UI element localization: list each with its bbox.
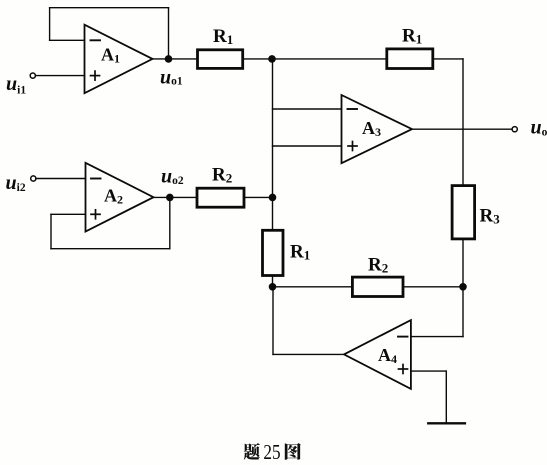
op-amp A3 bbox=[342, 95, 413, 163]
ground bbox=[428, 422, 465, 424]
terminal ui2 bbox=[31, 176, 36, 181]
wire down to ground bbox=[445, 371, 447, 423]
wire A1 feedback left bbox=[49, 8, 51, 41]
resistor R2 (left, after A2) bbox=[197, 188, 244, 207]
wire ui1 to A1 + input bbox=[35, 75, 84, 77]
A2 minus pin mark bbox=[91, 178, 101, 180]
A3 plus pin mark bbox=[348, 142, 357, 151]
A4 minus pin mark bbox=[398, 336, 408, 338]
resistor R1 (vertical middle) bbox=[263, 230, 284, 275]
wire R2 to middle junction bbox=[244, 196, 273, 198]
wire A2 feedback bottom bbox=[51, 248, 170, 250]
node uo1 junction dot bbox=[165, 55, 173, 63]
op-amp A1 bbox=[85, 25, 153, 94]
wire A1 inverting input bbox=[50, 39, 85, 41]
wire A3 output to uo bbox=[412, 128, 512, 130]
wire A1 feedback top bbox=[50, 7, 169, 9]
wire A3 non-inverting input bbox=[273, 145, 342, 147]
wire middle column bbox=[272, 59, 274, 230]
wire A2 feedback left up bbox=[50, 214, 52, 248]
wire R2 to right junction bbox=[403, 286, 463, 288]
resistor R2 (bottom horizontal) bbox=[352, 277, 403, 296]
A4 plus pin mark bbox=[399, 365, 408, 374]
node junction top dot bbox=[268, 55, 276, 63]
resistor R1 (top left) bbox=[198, 50, 243, 69]
node uo2 junction dot bbox=[166, 194, 174, 202]
wire right rail upper bbox=[462, 59, 464, 186]
node bottom-left junction dot bbox=[269, 283, 277, 291]
wire node to R2 bbox=[273, 286, 353, 288]
op-amp A4 (points left) bbox=[344, 320, 411, 389]
wire A4 non-inverting input bbox=[411, 370, 446, 372]
op-amp A2 bbox=[86, 163, 154, 232]
wire R1 to right rail corner bbox=[433, 58, 463, 60]
A2 plus pin mark bbox=[91, 210, 100, 219]
wire A4 output up to node bbox=[272, 287, 274, 355]
wire A2 feedback down bbox=[169, 197, 171, 248]
wire A4 inverting input bbox=[411, 336, 463, 338]
wire A4 output left bbox=[273, 353, 344, 355]
wire R1 bottom to node bbox=[272, 276, 274, 287]
terminal uo bbox=[512, 127, 517, 132]
wire A2 non-inverting input bbox=[51, 213, 86, 215]
A3 minus pin mark bbox=[348, 108, 358, 110]
svg-text:25: 25 bbox=[263, 440, 280, 464]
resistor R3 (vertical right) bbox=[452, 186, 475, 239]
caption character 题 bbox=[244, 443, 260, 460]
terminal ui1 bbox=[30, 73, 35, 78]
wire A1 output bbox=[153, 58, 198, 60]
wire A3 inverting input bbox=[273, 108, 342, 110]
resistor R1 (top right) bbox=[387, 49, 433, 69]
wire R1 to junction to R1 bbox=[243, 58, 387, 60]
A1 minus pin mark bbox=[91, 39, 101, 41]
wire ui2 to A2 - input bbox=[36, 178, 86, 180]
wire A2 output bbox=[154, 196, 198, 198]
caption character 图 bbox=[285, 443, 301, 460]
node middle junction dot bbox=[269, 194, 277, 202]
node bottom-right junction dot bbox=[459, 283, 467, 291]
wire A1 feedback up from output node bbox=[168, 8, 170, 59]
A1 plus pin mark bbox=[91, 71, 100, 80]
wire right rail lower bbox=[462, 239, 464, 337]
